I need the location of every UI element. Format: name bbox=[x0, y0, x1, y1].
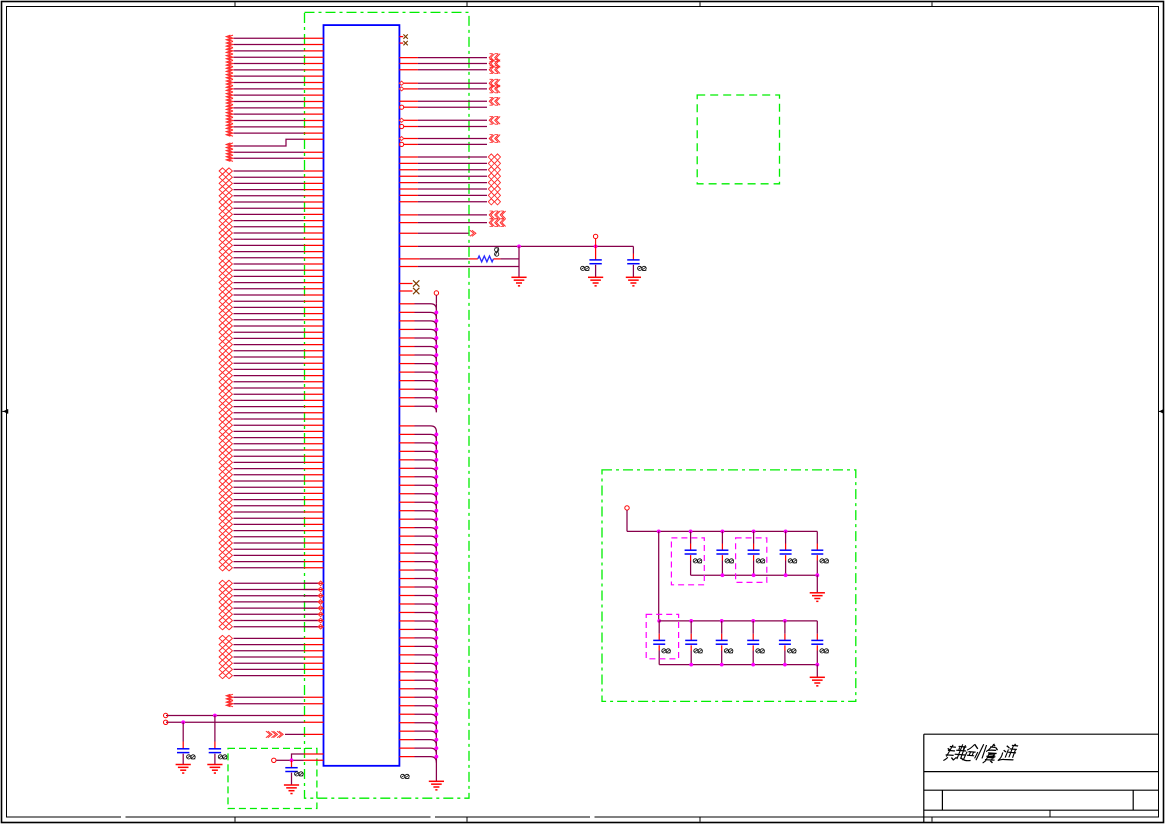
pin wire R45 bus bbox=[399, 451, 436, 457]
variant box M3 bbox=[646, 614, 678, 658]
junction bank2 bottom bbox=[689, 663, 693, 667]
pin wire bottom pair bbox=[272, 754, 324, 763]
junction bank1 top bbox=[784, 530, 788, 534]
pin wire L45 bbox=[219, 323, 323, 329]
junction bus2 bbox=[435, 441, 439, 445]
pin wire R6 bbox=[399, 79, 500, 87]
pin wire L62 bbox=[219, 428, 323, 434]
junction bus2 bbox=[435, 551, 439, 555]
pin wire R65 bus bbox=[399, 621, 436, 627]
capacitor C13 bbox=[716, 621, 733, 665]
pin wire L24 bbox=[219, 193, 323, 199]
capacitor C14 bbox=[747, 621, 764, 665]
junction feed bbox=[657, 530, 661, 534]
pin wire L101 bbox=[226, 701, 323, 707]
ground for C4 bbox=[588, 276, 603, 278]
bank1 top rail wire bbox=[627, 530, 817, 532]
pin wire L100 bbox=[226, 694, 323, 700]
pin wire L96 bbox=[219, 654, 323, 660]
junction bus2 bbox=[435, 483, 439, 487]
pin wire R46 bus bbox=[399, 460, 436, 466]
pin wire R59 bus bbox=[399, 570, 436, 576]
junction bus2 bbox=[435, 466, 439, 470]
capacitor C1 bbox=[177, 722, 195, 764]
capacitor C3 bbox=[285, 760, 303, 785]
ground for C2 bbox=[207, 764, 222, 766]
pin wire R20 bbox=[399, 192, 500, 198]
net rail wire R25 bbox=[399, 245, 633, 247]
pin wire L16 bbox=[226, 130, 323, 136]
no-connect pin R28 bbox=[399, 288, 419, 294]
junction bus2 bbox=[435, 746, 439, 750]
junction bus2 bbox=[435, 687, 439, 691]
junction bus1 bbox=[435, 353, 439, 357]
no-connect pin R27 bbox=[399, 280, 419, 286]
pin wire R48 bus bbox=[399, 477, 436, 483]
pin wire R29 bus bbox=[399, 304, 436, 310]
junction bus2 bbox=[435, 509, 439, 513]
pin wire L74 bbox=[219, 503, 323, 509]
pin wire L93 bbox=[219, 635, 323, 641]
pin wire L32 bbox=[219, 242, 323, 248]
pin wire L33 bbox=[219, 249, 323, 255]
pin wire L9 bbox=[226, 86, 323, 92]
pin wire L34 bbox=[219, 255, 323, 261]
junction bus2 bbox=[435, 449, 439, 453]
pin wire L28 bbox=[219, 218, 323, 224]
junction bus1 bbox=[435, 370, 439, 374]
pin wire R15 bbox=[399, 160, 500, 166]
capacitor C8 bbox=[748, 531, 765, 575]
capacitor C11 bbox=[653, 621, 670, 665]
ground for bus2 bbox=[429, 780, 444, 782]
pin wire R47 bus bbox=[399, 468, 436, 474]
wire to ground vertical bbox=[518, 246, 520, 277]
pin wire L71 bbox=[219, 484, 323, 490]
pin wire L76 bbox=[219, 515, 323, 521]
junction bus2 bbox=[435, 560, 439, 564]
junction bus1 bbox=[435, 310, 439, 314]
pin wire R61 bus bbox=[399, 587, 436, 593]
pin wire L57 bbox=[219, 397, 323, 403]
pin wire R3 bbox=[399, 54, 500, 62]
pin wire L42 bbox=[219, 304, 323, 310]
junction bank2 bottom bbox=[815, 663, 819, 667]
junction bus2 bbox=[435, 653, 439, 657]
junction bus1 bbox=[435, 362, 439, 366]
junction bank2 top bbox=[689, 619, 693, 623]
pin wire R77 bus bbox=[399, 723, 436, 729]
bank1 bottom rail wire bbox=[691, 574, 818, 576]
pin wire L8 bbox=[226, 79, 323, 85]
pin wire L97 bbox=[219, 660, 323, 666]
pin wire R80 bus bbox=[399, 748, 436, 754]
pin wire L94 bbox=[219, 642, 323, 648]
pin wire L40 bbox=[219, 292, 323, 298]
pin wire R41 bus bbox=[399, 406, 436, 412]
power rail wire VDD2 bbox=[164, 720, 324, 724]
pin wire L98 bbox=[219, 666, 323, 672]
junction bus2 bbox=[435, 585, 439, 589]
bank2 bottom rail wire bbox=[659, 664, 817, 666]
pin wire R52 bus bbox=[399, 511, 436, 517]
pin wire L23 bbox=[219, 187, 323, 193]
junction bank1 top bbox=[721, 530, 725, 534]
pin wire R22 bbox=[399, 211, 505, 219]
ground for C3 bbox=[284, 784, 299, 786]
junction bank1 bottom bbox=[721, 573, 725, 577]
pin wire L53 bbox=[219, 373, 323, 379]
junction on VDD1 bbox=[213, 714, 217, 718]
block outline main IC variant box bbox=[305, 12, 470, 798]
pin wire L29 bbox=[219, 224, 323, 230]
ground for C5 bbox=[626, 276, 641, 278]
pin wire L91 bbox=[219, 617, 323, 623]
pin wire R73 bus bbox=[399, 689, 436, 695]
pin wire R17 bbox=[399, 173, 500, 179]
no-connect pin R1 bbox=[399, 34, 407, 38]
pin wire R53 bus bbox=[399, 519, 436, 525]
pin wire R12 bbox=[399, 135, 500, 143]
pin wire R62 bus bbox=[399, 596, 436, 602]
junction bus2 bbox=[435, 738, 439, 742]
junction bus2 bbox=[435, 704, 439, 708]
pin wire R78 bus bbox=[399, 731, 436, 737]
pin wire L46 bbox=[219, 329, 323, 335]
off-page wire with chevrons bbox=[266, 731, 324, 738]
pin wire L11 bbox=[226, 98, 323, 104]
junction bank2 top bbox=[751, 619, 755, 623]
junction bus2 bbox=[435, 526, 439, 530]
pin wire R9 bbox=[400, 105, 488, 109]
pin wire R21 bbox=[399, 199, 500, 205]
pin wire L73 bbox=[219, 497, 323, 503]
pin wire L55 bbox=[219, 385, 323, 391]
pin wire R55 bus bbox=[399, 536, 436, 542]
junction bank1 top bbox=[752, 530, 756, 534]
pin wire R67 bus bbox=[399, 638, 436, 644]
pin wire R66 bus bbox=[399, 629, 436, 635]
junction bus2 bbox=[435, 644, 439, 648]
pin wire R68 bus bbox=[399, 646, 436, 652]
junction bank1 bottom bbox=[752, 573, 756, 577]
pin wire R60 bus bbox=[399, 579, 436, 585]
pin wire R44 bus bbox=[399, 443, 436, 449]
pin wire R38 bus bbox=[399, 381, 436, 387]
feeder wire to bank2 bbox=[658, 531, 660, 621]
junction at C3 bbox=[290, 758, 294, 762]
junction bus2 bbox=[435, 729, 439, 733]
pin wire L79 bbox=[219, 534, 323, 540]
pin wire R13 bbox=[400, 142, 488, 146]
junction bus2 bbox=[435, 577, 439, 581]
pin wire R81 bus bbox=[399, 757, 436, 763]
junction bus1 bbox=[435, 328, 439, 332]
junction bus1 bbox=[435, 404, 439, 408]
junction bus1 bbox=[435, 379, 439, 383]
pin wire R8 bbox=[399, 97, 500, 105]
pin wire L26 bbox=[219, 205, 323, 211]
junction rail B bbox=[594, 245, 598, 249]
pin wire L77 bbox=[219, 521, 323, 527]
pin wire L87 bbox=[219, 593, 323, 599]
junction bus2 bbox=[435, 678, 439, 682]
variant box M2 bbox=[736, 538, 767, 583]
pin wire L12 bbox=[226, 105, 323, 111]
pin wire L22 bbox=[219, 180, 323, 186]
junction bank1 bottom bbox=[815, 573, 819, 577]
junction bus2 bbox=[435, 670, 439, 674]
block outline top-right variant box bbox=[697, 95, 779, 184]
pin wire L17 stepped bbox=[226, 139, 323, 149]
pin wire R76 bus bbox=[399, 714, 436, 720]
pin wire L66 bbox=[219, 453, 323, 459]
junction bus2 bbox=[435, 500, 439, 504]
junction bank1 bottom bbox=[784, 573, 788, 577]
pin wire L61 bbox=[219, 422, 323, 428]
junction bank2 bottom bbox=[720, 663, 724, 667]
pin wire L88 bbox=[219, 599, 323, 605]
capacitor C12 bbox=[685, 621, 702, 665]
pin wire L1 bbox=[226, 35, 323, 41]
junction bus2 bbox=[435, 517, 439, 521]
junction bus2 bbox=[435, 543, 439, 547]
capacitor C7 bbox=[716, 531, 733, 575]
junction on VDD2 bbox=[181, 720, 185, 724]
junction bus2 bbox=[435, 628, 439, 632]
pin wire L10 bbox=[226, 92, 323, 98]
pin wire R35 bus bbox=[399, 355, 436, 361]
bus2 vertical wire bbox=[435, 432, 437, 781]
pin wire L69 bbox=[219, 472, 323, 478]
pin wire R5 bbox=[399, 66, 500, 74]
pin wire R24 off-page bbox=[399, 230, 476, 236]
pin wire L72 bbox=[219, 490, 323, 496]
pin wire R10 bbox=[399, 116, 500, 124]
pin wire L81 bbox=[219, 546, 323, 552]
pin wire L65 bbox=[219, 447, 323, 453]
pin wire L51 bbox=[219, 360, 323, 366]
junction bus2 bbox=[435, 611, 439, 615]
junction rail A bbox=[517, 245, 521, 249]
pin wire R32 bus bbox=[399, 329, 436, 335]
pin wire R63 bus bbox=[399, 604, 436, 610]
capacitor C9 bbox=[780, 531, 797, 575]
pin wire L19 bbox=[226, 155, 323, 161]
pin wire L56 bbox=[219, 391, 323, 397]
junction bus2 bbox=[435, 458, 439, 462]
capacitor C10 bbox=[811, 531, 828, 575]
pin wire L6 bbox=[226, 67, 323, 73]
bank1 ground wire bbox=[816, 575, 818, 593]
pin wire L15 bbox=[226, 124, 323, 130]
pin wire L52 bbox=[219, 366, 323, 372]
pin wire R72 bus bbox=[399, 680, 436, 686]
pin wire L39 bbox=[219, 286, 323, 292]
pin wire R39 bus bbox=[399, 389, 436, 395]
junction bus2 bbox=[435, 568, 439, 572]
pin wire L59 bbox=[219, 410, 323, 416]
pin wire L41 bbox=[219, 298, 323, 304]
pin wire L80 bbox=[219, 540, 323, 546]
pin wire L38 bbox=[219, 280, 323, 286]
pin wire R43 bus bbox=[399, 434, 436, 440]
ground for C1 bbox=[176, 764, 191, 766]
pin wire L31 bbox=[219, 236, 323, 242]
pin wire L68 bbox=[219, 466, 323, 472]
junction bank2 bottom bbox=[783, 663, 787, 667]
resistor R1 bbox=[399, 248, 519, 262]
pin wire R18 bbox=[399, 180, 500, 186]
pin wire R31 bus bbox=[399, 321, 436, 327]
capacitor C2 bbox=[209, 716, 227, 765]
pin wire L49 bbox=[219, 348, 323, 354]
junction bus1 bbox=[435, 396, 439, 400]
junction bank1 top bbox=[689, 530, 693, 534]
pin wire L50 bbox=[219, 354, 323, 360]
pin wire L21 bbox=[219, 174, 323, 180]
junction bus2 bbox=[435, 492, 439, 496]
capacitor C5 bbox=[627, 246, 646, 277]
junction bus2 bbox=[435, 712, 439, 716]
junction bus2 bbox=[435, 721, 439, 725]
ground bank1 bbox=[810, 592, 825, 594]
pin wire L43 bbox=[219, 311, 323, 317]
pin wire L48 bbox=[219, 342, 323, 348]
pin wire R51 bus bbox=[399, 502, 436, 508]
pin wire R16 bbox=[399, 167, 500, 173]
pin wire R37 bus bbox=[399, 372, 436, 378]
junction bus2 bbox=[435, 619, 439, 623]
capacitor C4 bbox=[581, 246, 602, 277]
pin wire L47 bbox=[219, 335, 323, 341]
junction bank2 bottom bbox=[751, 663, 755, 667]
capacitor C6 bbox=[685, 531, 702, 575]
bank2 top rail wire bbox=[659, 620, 817, 622]
pin wire L5 bbox=[226, 60, 323, 66]
pin wire R74 bus bbox=[399, 697, 436, 703]
pin wire R36 bus bbox=[399, 364, 436, 370]
pin wire L60 bbox=[219, 416, 323, 422]
pin wire R57 bus bbox=[399, 553, 436, 559]
pin wire R49 bus bbox=[399, 485, 436, 491]
pin wire R71 bus bbox=[399, 672, 436, 678]
pin wire L13 bbox=[226, 111, 323, 117]
pin wire L89 bbox=[219, 605, 323, 611]
pin wire L36 bbox=[219, 267, 323, 273]
pin wire R54 bus bbox=[399, 528, 436, 534]
pin wire L84 bbox=[219, 565, 323, 571]
pin wire R70 bus bbox=[399, 663, 436, 669]
junction bank2 top bbox=[720, 619, 724, 623]
pin wire R58 bus bbox=[399, 562, 436, 568]
block outline bottom-left variant box bbox=[228, 748, 317, 808]
junction bus2 bbox=[435, 755, 439, 759]
pin wire L70 bbox=[219, 478, 323, 484]
pin wire L4 bbox=[226, 54, 323, 60]
pin wire R33 bus bbox=[399, 338, 436, 344]
capacitor C16 bbox=[811, 621, 828, 665]
pin wire R64 bus bbox=[399, 612, 436, 618]
power rail wire VDD1 bbox=[164, 713, 324, 717]
pin wire L20 bbox=[219, 168, 323, 174]
pin wire L58 bbox=[219, 404, 323, 410]
pin wire R79 bus bbox=[399, 740, 436, 746]
pin wire L35 bbox=[219, 261, 323, 267]
pin wire L86 bbox=[219, 586, 323, 592]
junction bus1 bbox=[435, 345, 439, 349]
junction bus2 bbox=[435, 534, 439, 538]
pin wire R14 bbox=[399, 154, 500, 160]
junction bus2 bbox=[435, 432, 439, 436]
pin wire L14 bbox=[226, 117, 323, 123]
no-connect pin R2 bbox=[399, 41, 407, 45]
pin wire R69 bus bbox=[399, 655, 436, 661]
pin wire R26 bbox=[399, 266, 519, 268]
junction bus2 bbox=[435, 636, 439, 640]
pin wire R56 bus bbox=[399, 545, 436, 551]
junction bus2 bbox=[435, 661, 439, 665]
junction bus1 bbox=[435, 387, 439, 391]
pin wire L67 bbox=[219, 459, 323, 465]
pin wire R19 bbox=[399, 186, 500, 192]
junction bank2 top bbox=[783, 619, 787, 623]
junction bus2 bbox=[435, 695, 439, 699]
variant box M1 bbox=[671, 538, 704, 585]
capacitor C15 bbox=[779, 621, 796, 665]
pin wire L30 bbox=[219, 230, 323, 236]
junction bus2 bbox=[435, 594, 439, 598]
IC U1 bbox=[324, 25, 400, 766]
block outline capacitor-bank variant box bbox=[602, 470, 856, 702]
pin wire R40 bus bbox=[399, 398, 436, 404]
pin wire L64 bbox=[219, 441, 323, 447]
junction bus2 bbox=[435, 475, 439, 479]
pin wire L54 bbox=[219, 379, 323, 385]
pin wire R23 bbox=[399, 219, 505, 227]
ground under resistor bbox=[511, 276, 526, 278]
junction bus2 bbox=[435, 602, 439, 606]
pin wire L2 bbox=[226, 41, 323, 47]
pin wire L85 bbox=[219, 580, 323, 586]
pin wire R50 bus bbox=[399, 494, 436, 500]
pin wire L83 bbox=[219, 559, 323, 565]
pin wire R75 bus bbox=[399, 706, 436, 712]
pin wire L27 bbox=[219, 211, 323, 217]
pin wire R4 bbox=[399, 60, 500, 68]
pin wire L18 bbox=[226, 149, 323, 155]
pin wire L92 bbox=[219, 624, 323, 630]
pin wire L37 bbox=[219, 273, 323, 279]
pin wire L99 bbox=[219, 673, 323, 679]
pin wire L44 bbox=[219, 317, 323, 323]
pin wire R11 bbox=[400, 124, 488, 128]
ground bank2 bbox=[810, 676, 825, 678]
pin wire L78 bbox=[219, 528, 323, 534]
junction bus1 bbox=[435, 336, 439, 340]
pin wire L75 bbox=[219, 509, 323, 515]
pin wire L82 bbox=[219, 552, 323, 558]
bank2 ground wire bbox=[816, 665, 818, 678]
junction bus1 bbox=[435, 319, 439, 323]
pin wire L3 bbox=[226, 48, 323, 54]
pin wire L90 bbox=[219, 611, 323, 617]
pin wire L63 bbox=[219, 435, 323, 441]
pin wire L7 bbox=[226, 73, 323, 79]
pin wire L25 bbox=[219, 199, 323, 205]
pin wire R7 bbox=[399, 85, 500, 93]
pin wire R42 bus bbox=[399, 426, 436, 432]
